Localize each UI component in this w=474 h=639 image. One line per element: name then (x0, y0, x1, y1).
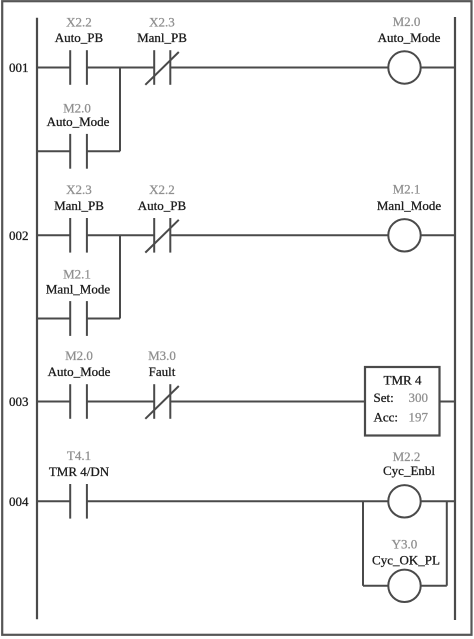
svg-text:197: 197 (409, 410, 429, 425)
svg-text:Fault: Fault (149, 364, 176, 379)
svg-text:M2.1: M2.1 (393, 182, 421, 197)
svg-text:Auto_PB: Auto_PB (55, 30, 104, 45)
contact M3.0 Fault (NC) (145, 348, 179, 419)
wire rung 002 segment left (37, 234, 70, 236)
contact X2.2 Auto_PB (NO) (55, 14, 104, 85)
svg-text:M2.1: M2.1 (63, 266, 91, 281)
timer TMR 4 box (365, 367, 440, 436)
wire rung 003 timer to right rail (440, 401, 456, 403)
wire rung 001 branch left (37, 150, 70, 152)
wire rung 004 branch down (362, 501, 364, 586)
wire rung 001 branch down (119, 68, 121, 152)
svg-text:Y3.0: Y3.0 (392, 536, 418, 551)
right power rail (454, 17, 456, 620)
contact X2.3 Manl_PB (NO) (54, 182, 104, 253)
svg-text:Auto_Mode: Auto_Mode (47, 114, 110, 129)
svg-text:Manl_Mode: Manl_Mode (46, 281, 111, 296)
contact M2.0 Auto_Mode (NO seal-in) (47, 100, 110, 168)
coil M2.0 Auto_Mode (378, 14, 441, 84)
wire rung 001 segment right (170, 67, 388, 69)
wire rung 002 branch right (87, 318, 120, 320)
svg-text:300: 300 (409, 390, 429, 405)
contact X2.3 Manl_PB (NC) (137, 14, 187, 85)
svg-text:Manl_PB: Manl_PB (137, 30, 187, 45)
contact M2.0 Auto_Mode (NO) (48, 348, 111, 419)
contact X2.2 Auto_PB (NC) (138, 182, 187, 253)
svg-text:M2.0: M2.0 (65, 348, 93, 363)
contact M2.1 Manl_Mode (NO seal-in) (46, 266, 111, 336)
coil Y3.0 Cyc_OK_PL (372, 536, 440, 602)
wire rung 001 segment left (37, 67, 70, 69)
coil M2.2 Cyc_Enbl (383, 449, 435, 517)
svg-text:Auto_PB: Auto_PB (138, 198, 187, 213)
wire rung 004 branch up (446, 501, 448, 586)
wire rung 001 coil to right rail (421, 67, 455, 69)
wire rung 002 segment middle (87, 234, 154, 236)
svg-text:TMR 4/DN: TMR 4/DN (49, 464, 110, 479)
svg-text:M2.0: M2.0 (393, 14, 421, 29)
contact T4.1 TMR 4/DN (NO) (49, 448, 110, 518)
coil M2.1 Manl_Mode (377, 182, 442, 252)
left power rail (36, 18, 38, 620)
svg-text:002: 002 (9, 228, 29, 243)
wire rung 002 branch left (37, 318, 70, 320)
wire rung 004 branch left (363, 585, 388, 587)
svg-text:M2.0: M2.0 (63, 100, 91, 115)
wire rung 002 coil to right rail (421, 234, 455, 236)
svg-text:Manl_Mode: Manl_Mode (377, 198, 442, 213)
svg-text:001: 001 (9, 60, 29, 75)
wire rung 003 segment left (37, 401, 70, 403)
wire rung 004 segment right (87, 500, 388, 502)
svg-text:003: 003 (9, 394, 29, 409)
svg-text:Auto_Mode: Auto_Mode (48, 364, 111, 379)
svg-text:Acc:: Acc: (374, 410, 399, 425)
svg-text:M2.2: M2.2 (393, 449, 421, 464)
svg-text:TMR 4: TMR 4 (384, 373, 422, 388)
svg-text:M3.0: M3.0 (148, 348, 176, 363)
svg-text:Auto_Mode: Auto_Mode (378, 30, 441, 45)
svg-text:Manl_PB: Manl_PB (54, 198, 104, 213)
wire rung 002 segment right (170, 234, 388, 236)
svg-text:X2.3: X2.3 (66, 182, 92, 197)
wire rung 004 branch right (421, 585, 447, 587)
svg-text:X2.3: X2.3 (149, 14, 175, 29)
svg-text:T4.1: T4.1 (67, 448, 91, 463)
svg-text:X2.2: X2.2 (66, 14, 92, 29)
wire rung 003 segment middle (87, 401, 154, 403)
svg-text:004: 004 (9, 494, 29, 509)
wire rung 004 coil to right rail (421, 500, 455, 502)
wire rung 001 segment middle (87, 67, 154, 69)
wire rung 001 branch right (87, 150, 120, 152)
svg-text:Set:: Set: (374, 390, 394, 405)
svg-text:X2.2: X2.2 (149, 182, 175, 197)
svg-text:Cyc_Enbl: Cyc_Enbl (383, 463, 435, 478)
wire rung 004 segment left (37, 500, 70, 502)
wire rung 002 branch down (119, 235, 121, 318)
svg-text:Cyc_OK_PL: Cyc_OK_PL (372, 552, 440, 567)
wire rung 003 segment to timer (170, 401, 365, 403)
